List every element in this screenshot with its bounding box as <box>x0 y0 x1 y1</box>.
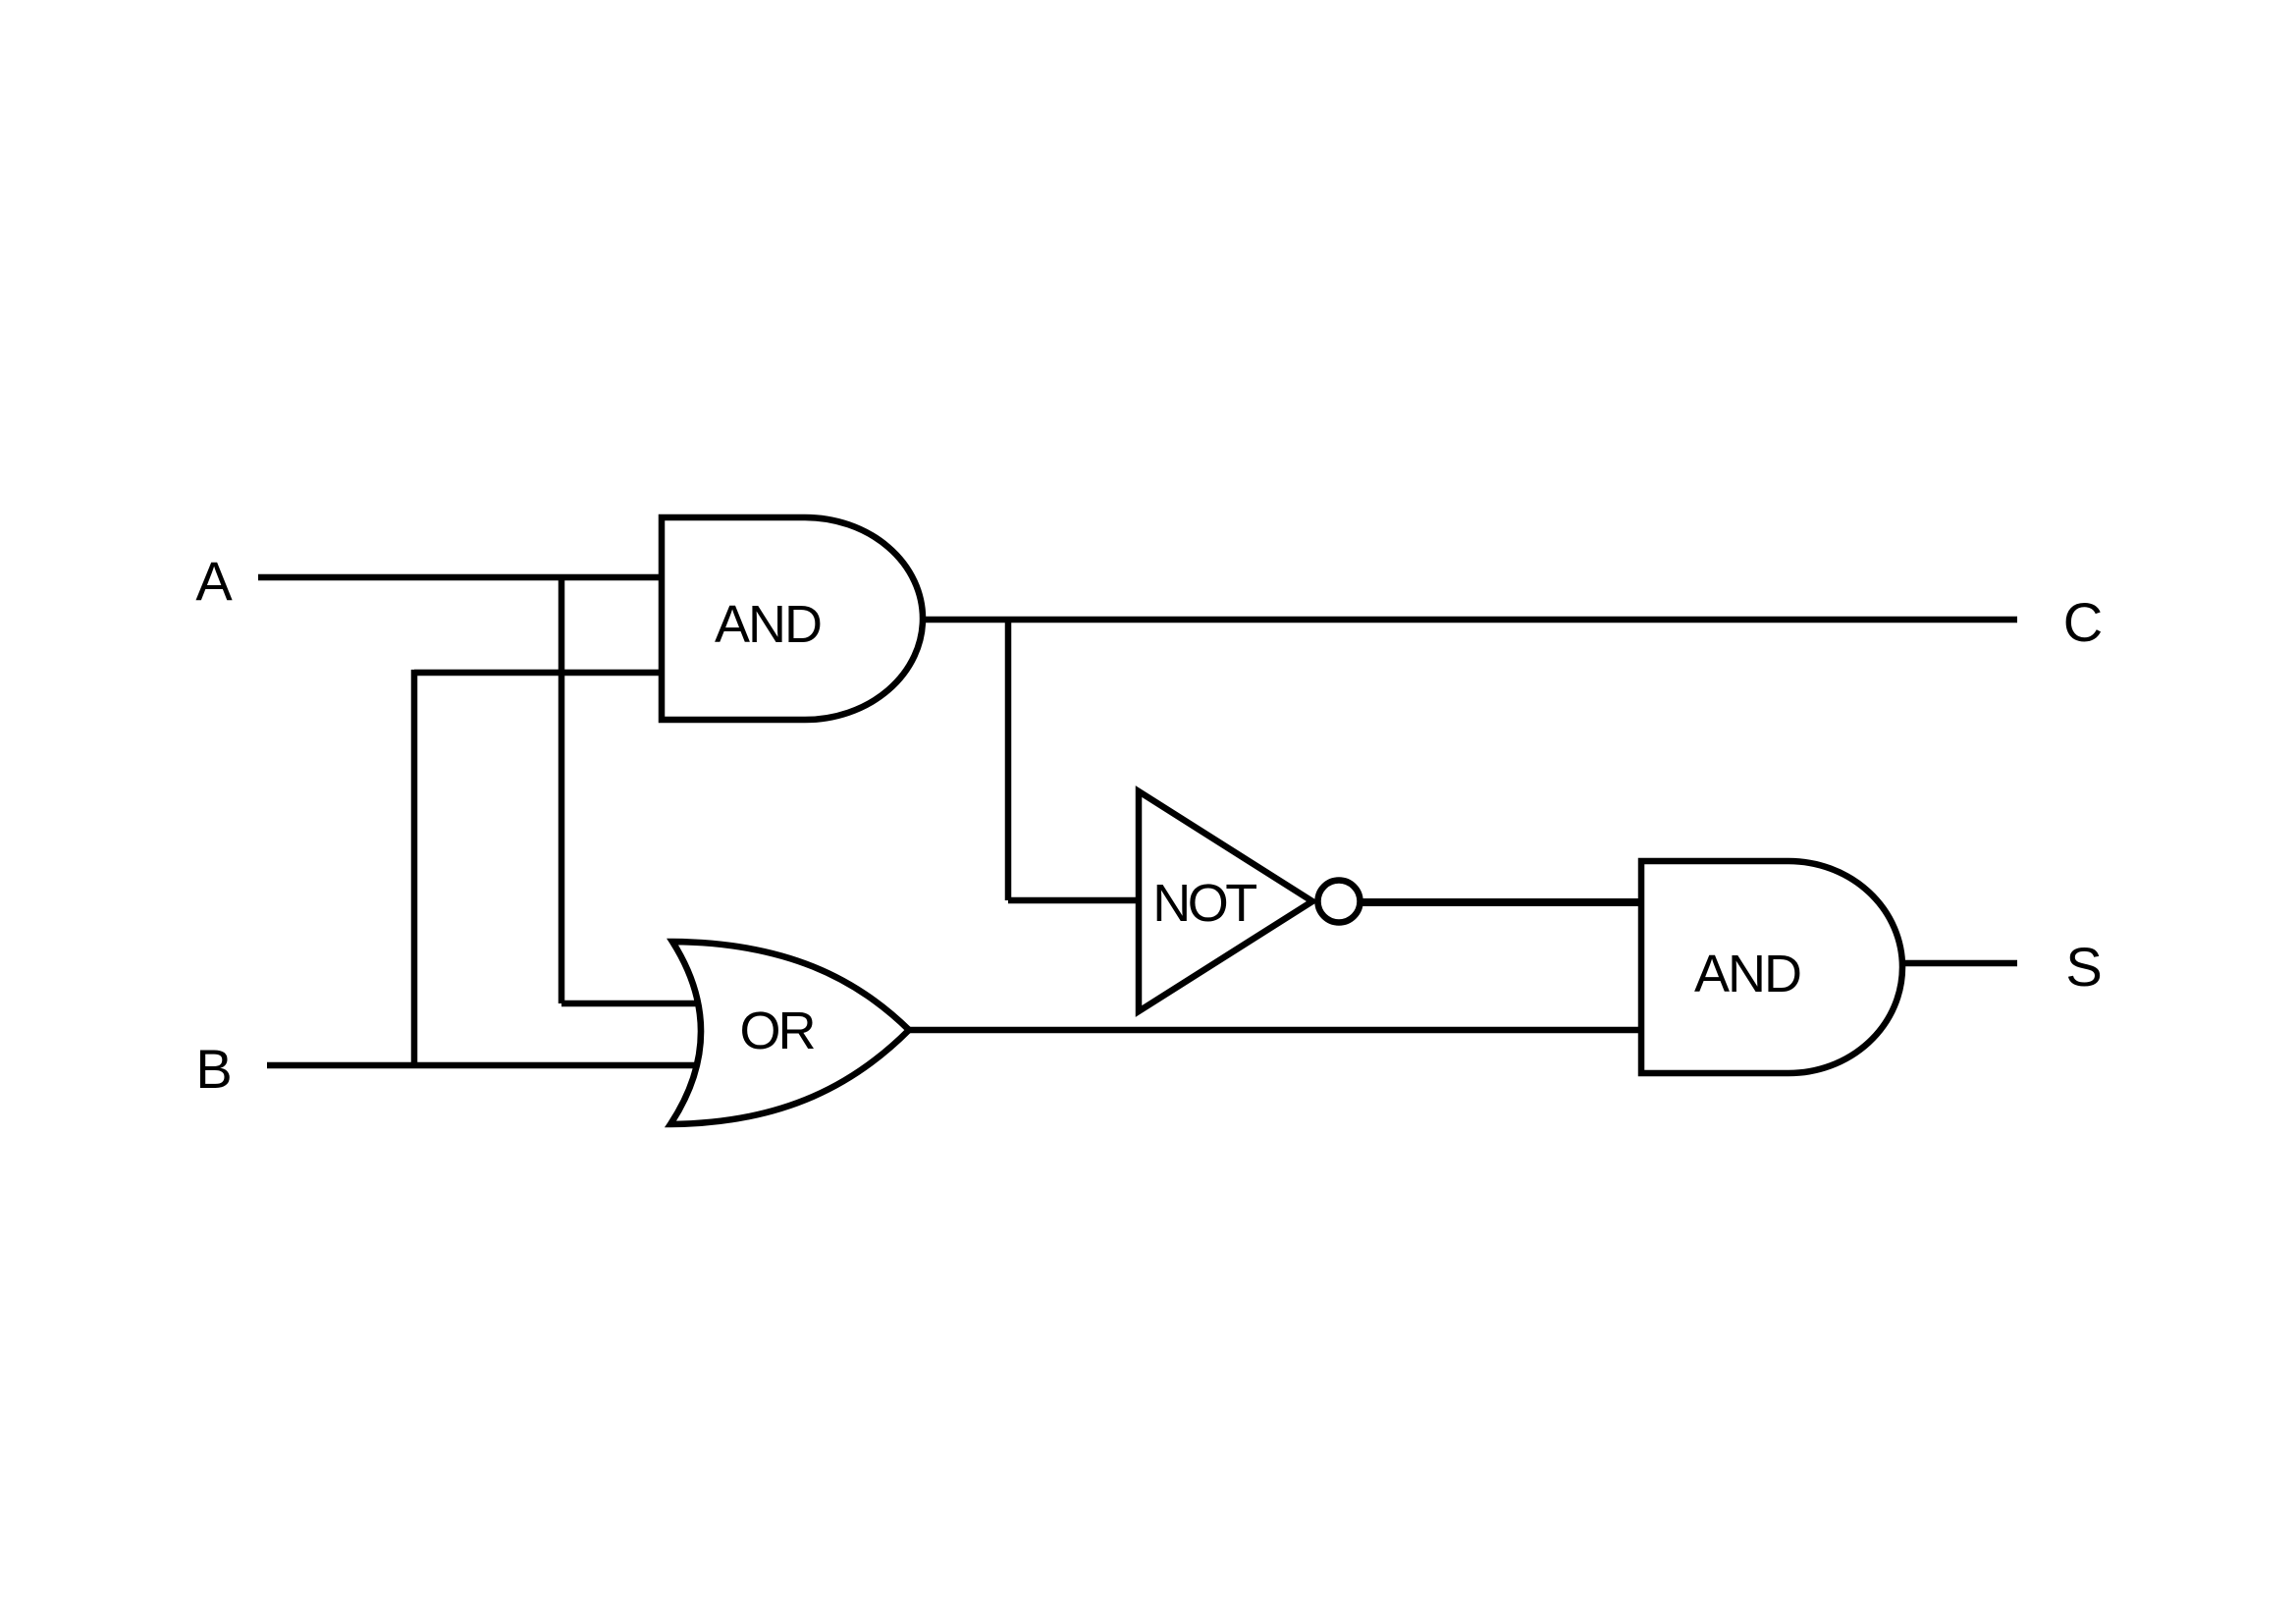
wire AND1 lower input horizontal <box>414 670 665 677</box>
wire NOT output to AND2 upper input <box>1362 898 1644 906</box>
AND gate U1 body <box>662 517 923 720</box>
wire B branch vertical up to AND1 lower input <box>411 670 418 1065</box>
wire branch from A down to OR upper input <box>559 577 565 1003</box>
wire OR upper input horizontal <box>561 1001 699 1007</box>
OR gate U3 body <box>670 942 909 1124</box>
NOT gate U2 triangle <box>1139 791 1312 1011</box>
svg-text:AND: AND <box>1694 945 1800 1003</box>
svg-text:OR: OR <box>740 1001 815 1060</box>
NOT gate U2 inversion bubble <box>1318 881 1361 923</box>
AND gate U4 body <box>1641 861 1902 1073</box>
svg-text:C: C <box>2063 591 2103 653</box>
svg-text:NOT: NOT <box>1152 874 1256 933</box>
svg-text:S: S <box>2065 936 2102 998</box>
wire AND2 output to S <box>1899 960 2017 967</box>
wire AND1 output to C <box>920 617 2017 623</box>
wire branch from C line down to NOT input <box>1005 620 1012 900</box>
wire A input to AND1 <box>258 574 665 581</box>
svg-text:A: A <box>195 550 233 612</box>
svg-text:AND: AND <box>715 595 821 654</box>
wire B input to OR lower input <box>267 1062 697 1069</box>
wire NOT input horizontal <box>1008 897 1141 904</box>
svg-text:B: B <box>195 1038 232 1100</box>
wire OR output to AND2 lower input <box>909 1027 1644 1034</box>
